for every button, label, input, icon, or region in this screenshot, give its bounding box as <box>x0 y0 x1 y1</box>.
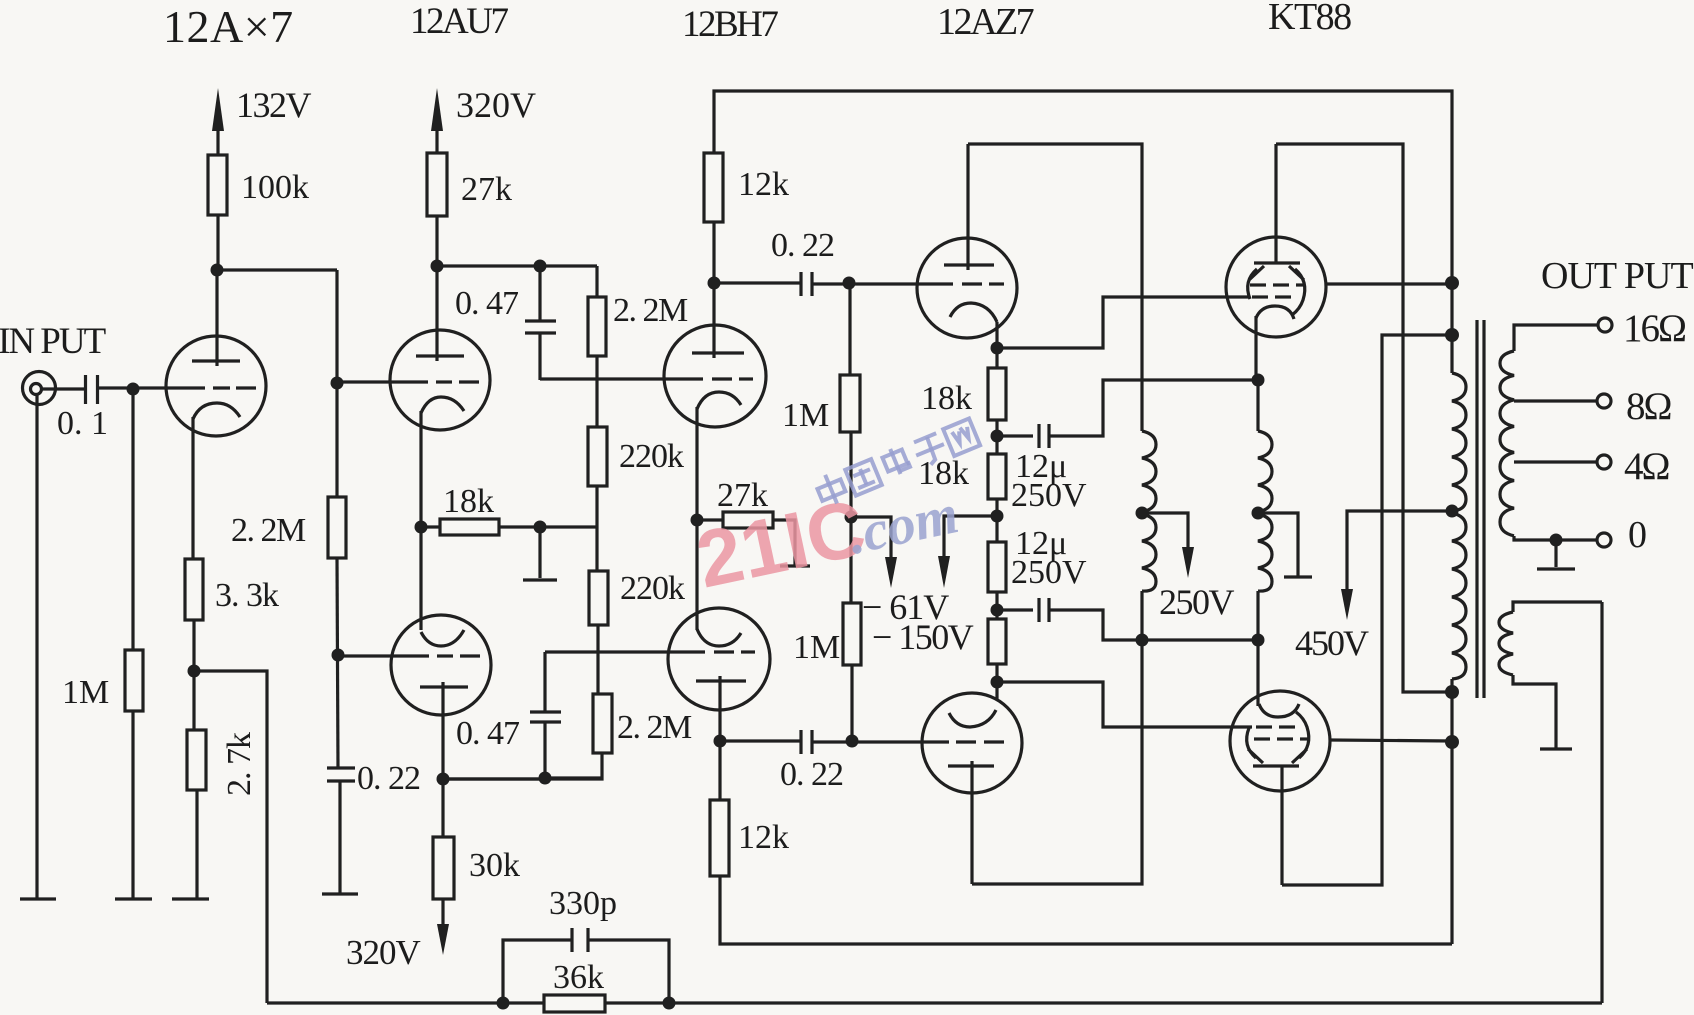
svg-text:36k: 36k <box>553 959 604 996</box>
node 12u upper <box>991 430 1004 443</box>
ground choke2 <box>1284 575 1312 578</box>
svg-text:1M: 1M <box>793 629 840 666</box>
wire lower KT88 plate link <box>1282 335 1452 885</box>
svg-text:12k: 12k <box>738 166 789 203</box>
node cathodes 27k <box>691 514 704 527</box>
cathode lead V4 to V5 <box>695 407 698 630</box>
wire node to 2.7k <box>192 671 195 730</box>
choke L1 winding upper <box>1142 431 1156 512</box>
svg-text:0. 22: 0. 22 <box>780 756 843 793</box>
choke L1 winding lower <box>1142 514 1156 591</box>
wire node down to R 1M <box>131 389 134 650</box>
plate lead V8 <box>1274 144 1277 263</box>
svg-text:320V: 320V <box>456 85 536 125</box>
svg-text:220k: 220k <box>620 570 685 607</box>
resistor R1 100k <box>208 155 227 215</box>
tube V6 12AZ7 upper triode <box>917 238 1017 338</box>
wire cathode to KT88 grid <box>997 297 1250 348</box>
svg-text:100k: 100k <box>241 169 309 206</box>
node C4 bottom <box>539 772 552 785</box>
svg-text:0. 47: 0. 47 <box>455 285 519 322</box>
wire C4 down to plate row <box>543 722 546 778</box>
wire 2.7k to ground <box>195 790 198 898</box>
tube V9 KT88 lower beam tetrode inverted <box>1230 691 1330 791</box>
wire 220k to 18k row <box>595 486 598 571</box>
resistor R17 1M <box>840 375 860 432</box>
svg-text:KT88: KT88 <box>1268 0 1351 38</box>
svg-text:27k: 27k <box>461 171 512 208</box>
resistor R18 1M lower <box>843 603 861 665</box>
node 36k left <box>497 997 510 1010</box>
wire lower grid row to V5 grid <box>545 650 705 653</box>
wire 2.2M to grid junction <box>595 356 598 427</box>
resistor R3 3.3k <box>185 559 203 620</box>
input jack J1 <box>23 372 56 405</box>
wire plate node to C6 <box>714 281 800 284</box>
bottom rail left <box>267 1001 544 1004</box>
resistor R7 18k <box>440 519 499 535</box>
wire grid bus lower vertical <box>337 558 338 768</box>
wire 1M to bias node <box>849 432 852 603</box>
tube V8 KT88 upper beam tetrode <box>1226 237 1326 337</box>
arrow 450V <box>1347 511 1452 592</box>
arrow 250V <box>1142 513 1188 550</box>
wire to lower cap node <box>995 592 998 619</box>
wire 3.3k to node <box>192 620 195 671</box>
wire cathode node to 18k <box>421 525 440 528</box>
svg-text:18k: 18k <box>921 380 972 417</box>
ground below C3 <box>322 892 358 895</box>
wire 18k to -150V node <box>995 499 998 542</box>
wire input jack to C1 <box>41 387 84 390</box>
wire node to 27k <box>697 518 723 521</box>
capacitor C7 0.22 lower <box>799 730 802 754</box>
svg-text:30k: 30k <box>469 847 520 884</box>
resistor R20 18k second <box>988 454 1006 499</box>
terminal 0 <box>1597 533 1611 547</box>
svg-text:0. 22: 0. 22 <box>357 760 420 797</box>
wire 0 tap <box>1514 536 1596 540</box>
cathode lead V1 to 3.3k <box>191 417 194 559</box>
ground secondary <box>1537 567 1575 570</box>
OPT secondary winding <box>1500 351 1514 536</box>
node 12u lower <box>991 604 1004 617</box>
wire 27k to plate node <box>435 216 438 266</box>
resistor R8 220k <box>588 427 607 486</box>
svg-text:2. 2M: 2. 2M <box>231 512 306 549</box>
wire V7 cathode to lower KT88 grid <box>997 682 1252 727</box>
svg-text:12AU7: 12AU7 <box>410 1 508 42</box>
ground below 2.7k <box>172 897 209 900</box>
capacitor C3 0.22 grid bus <box>327 766 355 769</box>
wire 12k to plate node <box>712 222 715 283</box>
capacitor C8 12u 250V <box>997 434 1033 437</box>
node 36k right <box>663 997 676 1010</box>
node V2 plate <box>431 260 444 273</box>
resistor R12 30k <box>433 837 454 899</box>
node 0.47 top <box>534 260 547 273</box>
resistor R15 12k lower <box>710 800 729 876</box>
wire 4ohm tap <box>1514 460 1596 463</box>
OPT primary winding lower <box>1452 513 1466 679</box>
svg-text:12BH7: 12BH7 <box>682 4 778 45</box>
capacitor C2 0.47 <box>525 319 556 322</box>
arrow 320V supply top <box>435 127 438 153</box>
plate lead V7 <box>970 761 973 884</box>
plate lead V2 <box>435 266 438 361</box>
resistor R4 2.7k <box>187 730 206 790</box>
node lower KT88 cathode <box>1252 634 1265 647</box>
svg-text:IN PUT: IN PUT <box>0 321 106 362</box>
tube V2 12AU7 upper triode <box>390 330 490 430</box>
wire 220k to lower grid row <box>596 625 599 694</box>
OPT feedback winding <box>1499 612 1513 675</box>
plate lead V3 down <box>441 682 444 779</box>
node V1 cathode feedback <box>188 665 201 678</box>
ground below 1M <box>115 897 152 900</box>
plate lead V9 <box>1280 766 1283 885</box>
wire grid bus to V3 grid <box>338 654 429 657</box>
wire plate node to grid bus corner <box>217 268 337 271</box>
svg-text:1M: 1M <box>62 674 109 711</box>
wire node down to C2 <box>538 266 541 321</box>
node bias -61V <box>845 511 858 524</box>
tube V5 12BH7 lower triode inverted <box>668 608 770 710</box>
wire C7 to V7 grid <box>812 740 949 743</box>
node input grid <box>127 383 140 396</box>
resistor R11 2.2M lower <box>593 694 612 753</box>
wire C9 to lower KT88 cathode <box>1049 610 1258 640</box>
wire 8ohm tap <box>1514 399 1596 402</box>
svg-text:2. 2M: 2. 2M <box>613 292 688 329</box>
wire V8 plate to primary bottom <box>1276 144 1452 692</box>
svg-text:250V: 250V <box>1011 554 1087 591</box>
resistor R13 36k <box>544 995 605 1012</box>
wire C6 to V6 grid <box>812 282 953 285</box>
resistor R14 12k <box>704 153 723 222</box>
tube V7 12AZ7 lower triode inverted <box>922 693 1022 793</box>
arrow -61V <box>851 517 891 560</box>
svg-text:220k: 220k <box>619 438 684 475</box>
arrow 132V supply <box>216 127 219 155</box>
arrow 320V supply bottom <box>441 899 444 928</box>
node V3 grid <box>332 649 345 662</box>
wire ground tap <box>538 527 541 578</box>
node primary center <box>1446 505 1459 518</box>
wire plate row left segment <box>443 777 545 780</box>
svg-text:0. 1: 0. 1 <box>57 405 108 442</box>
wire 2.2M lower to plate row corner <box>443 753 602 779</box>
wire grid bus vertical upper <box>335 270 338 497</box>
svg-text:0. 47: 0. 47 <box>456 715 520 752</box>
wire 330p branch left <box>503 940 571 1003</box>
plate lead V5 <box>718 676 721 800</box>
capacitor C9 12u 250V lower <box>997 608 1033 611</box>
node V7 grid coupling <box>846 735 859 748</box>
bottom rail right <box>605 1001 1602 1004</box>
svg-text:2. 7k: 2. 7k <box>221 732 258 796</box>
wire node to V2 grid <box>337 380 428 383</box>
svg-text:450V: 450V <box>1295 623 1369 663</box>
svg-text:16Ω: 16Ω <box>1623 307 1685 350</box>
watermark CJK 中国电子网 <box>814 416 981 509</box>
plate lead V1 <box>215 270 218 366</box>
wire C8 to KT88 cathode <box>1049 380 1258 436</box>
svg-text:250V: 250V <box>1159 582 1235 622</box>
svg-text:2. 2M: 2. 2M <box>617 709 692 746</box>
capacitor C6 0.22 <box>799 272 802 296</box>
wire 1M to ground <box>131 711 134 898</box>
node choke2 tap <box>1252 507 1265 520</box>
tube V3 12AU7 lower triode inverted <box>391 615 491 715</box>
ground below 27k <box>780 564 810 567</box>
node secondary ground <box>1550 534 1563 547</box>
terminal 8ohm <box>1597 394 1611 408</box>
svg-text:12k: 12k <box>738 819 789 856</box>
wire 16ohm tap <box>1514 325 1598 351</box>
node V3 plate <box>437 773 450 786</box>
node -150V tap <box>991 510 1004 523</box>
terminal 16ohm <box>1598 318 1612 332</box>
tube V1 12A×7 triode <box>166 336 266 436</box>
wire V9 screen to primary bottom <box>1330 740 1452 741</box>
plate lead V6 <box>966 144 969 270</box>
cathode lead V6 <box>995 322 998 368</box>
wire 18k to 220k junction <box>499 525 597 528</box>
wire node to 1M <box>848 283 851 375</box>
wire C2 to grid row <box>538 333 541 380</box>
resistor R10 2.2M <box>588 297 606 356</box>
resistor R16 27k <box>723 512 773 528</box>
wire 18k to cap node <box>995 420 998 454</box>
capacitor C4 0.47 lower <box>530 710 561 713</box>
svg-text:8Ω: 8Ω <box>1626 385 1671 428</box>
cathode lead lower KT88 <box>1256 640 1259 706</box>
wire 330p branch right <box>589 940 669 1003</box>
node screen lower <box>1445 735 1459 749</box>
node plate upper link <box>1445 685 1459 699</box>
choke L2 line top <box>1256 380 1259 431</box>
wire V8 screen to primary top <box>1326 282 1452 285</box>
wire choke2 tap to ground <box>1258 513 1298 576</box>
node choke1 bottom junction <box>1136 634 1149 647</box>
wire primary bottom chain <box>1450 679 1453 944</box>
wire plate node to 30k <box>441 779 444 837</box>
terminal 4ohm <box>1597 455 1611 469</box>
choke L2 winding upper <box>1258 431 1272 512</box>
ground below jack <box>20 897 56 900</box>
top rail to OPT <box>714 91 1452 373</box>
svg-text:3. 3k: 3. 3k <box>215 577 279 614</box>
wire choke2 bottom to node <box>1256 591 1259 640</box>
node 18k ground tap <box>534 521 547 534</box>
wire plate node to C7 <box>720 739 800 742</box>
node V7 cathode <box>991 676 1004 689</box>
svg-text:12A×7: 12A×7 <box>163 1 294 52</box>
node choke1 tap <box>1136 507 1149 520</box>
feedback winding bottom wire <box>1513 675 1556 748</box>
wire secondary ground stem <box>1554 540 1557 567</box>
svg-text:1M: 1M <box>782 397 829 434</box>
node V1 plate <box>211 264 224 277</box>
wire jack sleeve down <box>35 394 38 898</box>
svg-text:0. 22: 0. 22 <box>771 227 834 264</box>
wire corner down to 2.2M <box>595 266 598 297</box>
svg-text:OUT PUT: OUT PUT <box>1541 255 1693 297</box>
wire 27k to ground <box>773 520 795 565</box>
svg-text:18k: 18k <box>443 483 494 520</box>
wire grid row to V4 grid <box>540 377 703 380</box>
resistor R19 18k <box>988 368 1006 420</box>
svg-text:− 150V: − 150V <box>872 617 974 657</box>
wire C3 to ground <box>338 781 341 893</box>
wire C1 to grid of V1 <box>98 386 205 389</box>
feedback winding top wire <box>1513 602 1602 612</box>
resistor R9 220k lower <box>589 571 608 625</box>
node cathode 18k <box>415 521 428 534</box>
wire C4 node to 2.2M corner <box>545 776 602 779</box>
svg-text:330p: 330p <box>549 885 617 922</box>
node screen upper <box>1445 276 1459 290</box>
node plate lower link <box>1445 328 1459 342</box>
capacitor C1 0.1 <box>84 375 87 404</box>
resistor R5 27k <box>427 153 447 216</box>
tube V4 12BH7 upper triode <box>664 325 766 427</box>
choke L2 winding lower <box>1258 514 1272 591</box>
cathode lead V2 down <box>419 411 422 630</box>
resistor R2 1M <box>125 650 143 711</box>
wire to V7 cathode <box>995 664 998 700</box>
svg-text:0: 0 <box>1628 514 1647 556</box>
svg-text:4Ω: 4Ω <box>1624 445 1669 488</box>
ground feedback winding <box>1540 747 1572 750</box>
OPT primary winding upper <box>1452 373 1466 511</box>
svg-text:132V: 132V <box>236 85 312 125</box>
resistor R22 18k fourth <box>988 619 1006 664</box>
capacitor C5 330p <box>570 928 573 952</box>
wire 100k to plate node <box>216 215 219 270</box>
cathode lead V8 <box>1254 316 1257 380</box>
node V5 plate <box>714 735 727 748</box>
node 1M upper <box>843 277 856 290</box>
svg-text:320V: 320V <box>346 933 421 972</box>
plate lead V4 <box>712 283 715 358</box>
ground below 18k <box>523 578 557 581</box>
wire corner down to C4 <box>543 652 546 712</box>
svg-text:12AZ7: 12AZ7 <box>937 1 1034 43</box>
feedback line right vertical <box>1600 602 1603 1003</box>
arrow -150V <box>944 516 997 558</box>
node KT88 cathode <box>1252 374 1265 387</box>
resistor R21 18k third <box>988 542 1006 592</box>
wire V7 plate to choke1 bottom <box>972 591 1142 884</box>
node grid V2 <box>331 377 344 390</box>
resistor R6 2.2M grid bus <box>328 497 346 558</box>
OPT core lines <box>1475 320 1478 698</box>
wire 12k lower to bottom B rail <box>720 876 1452 944</box>
wire plate node to 0.47 node <box>437 264 597 267</box>
svg-text:250V: 250V <box>1011 477 1087 514</box>
node V6 cathode <box>991 342 1004 355</box>
wire V6 plate to choke1 top <box>968 144 1142 431</box>
node V4 plate <box>708 277 721 290</box>
wire feedback from cathode node <box>194 671 267 1003</box>
wire 1M lower to grid row <box>850 665 853 741</box>
